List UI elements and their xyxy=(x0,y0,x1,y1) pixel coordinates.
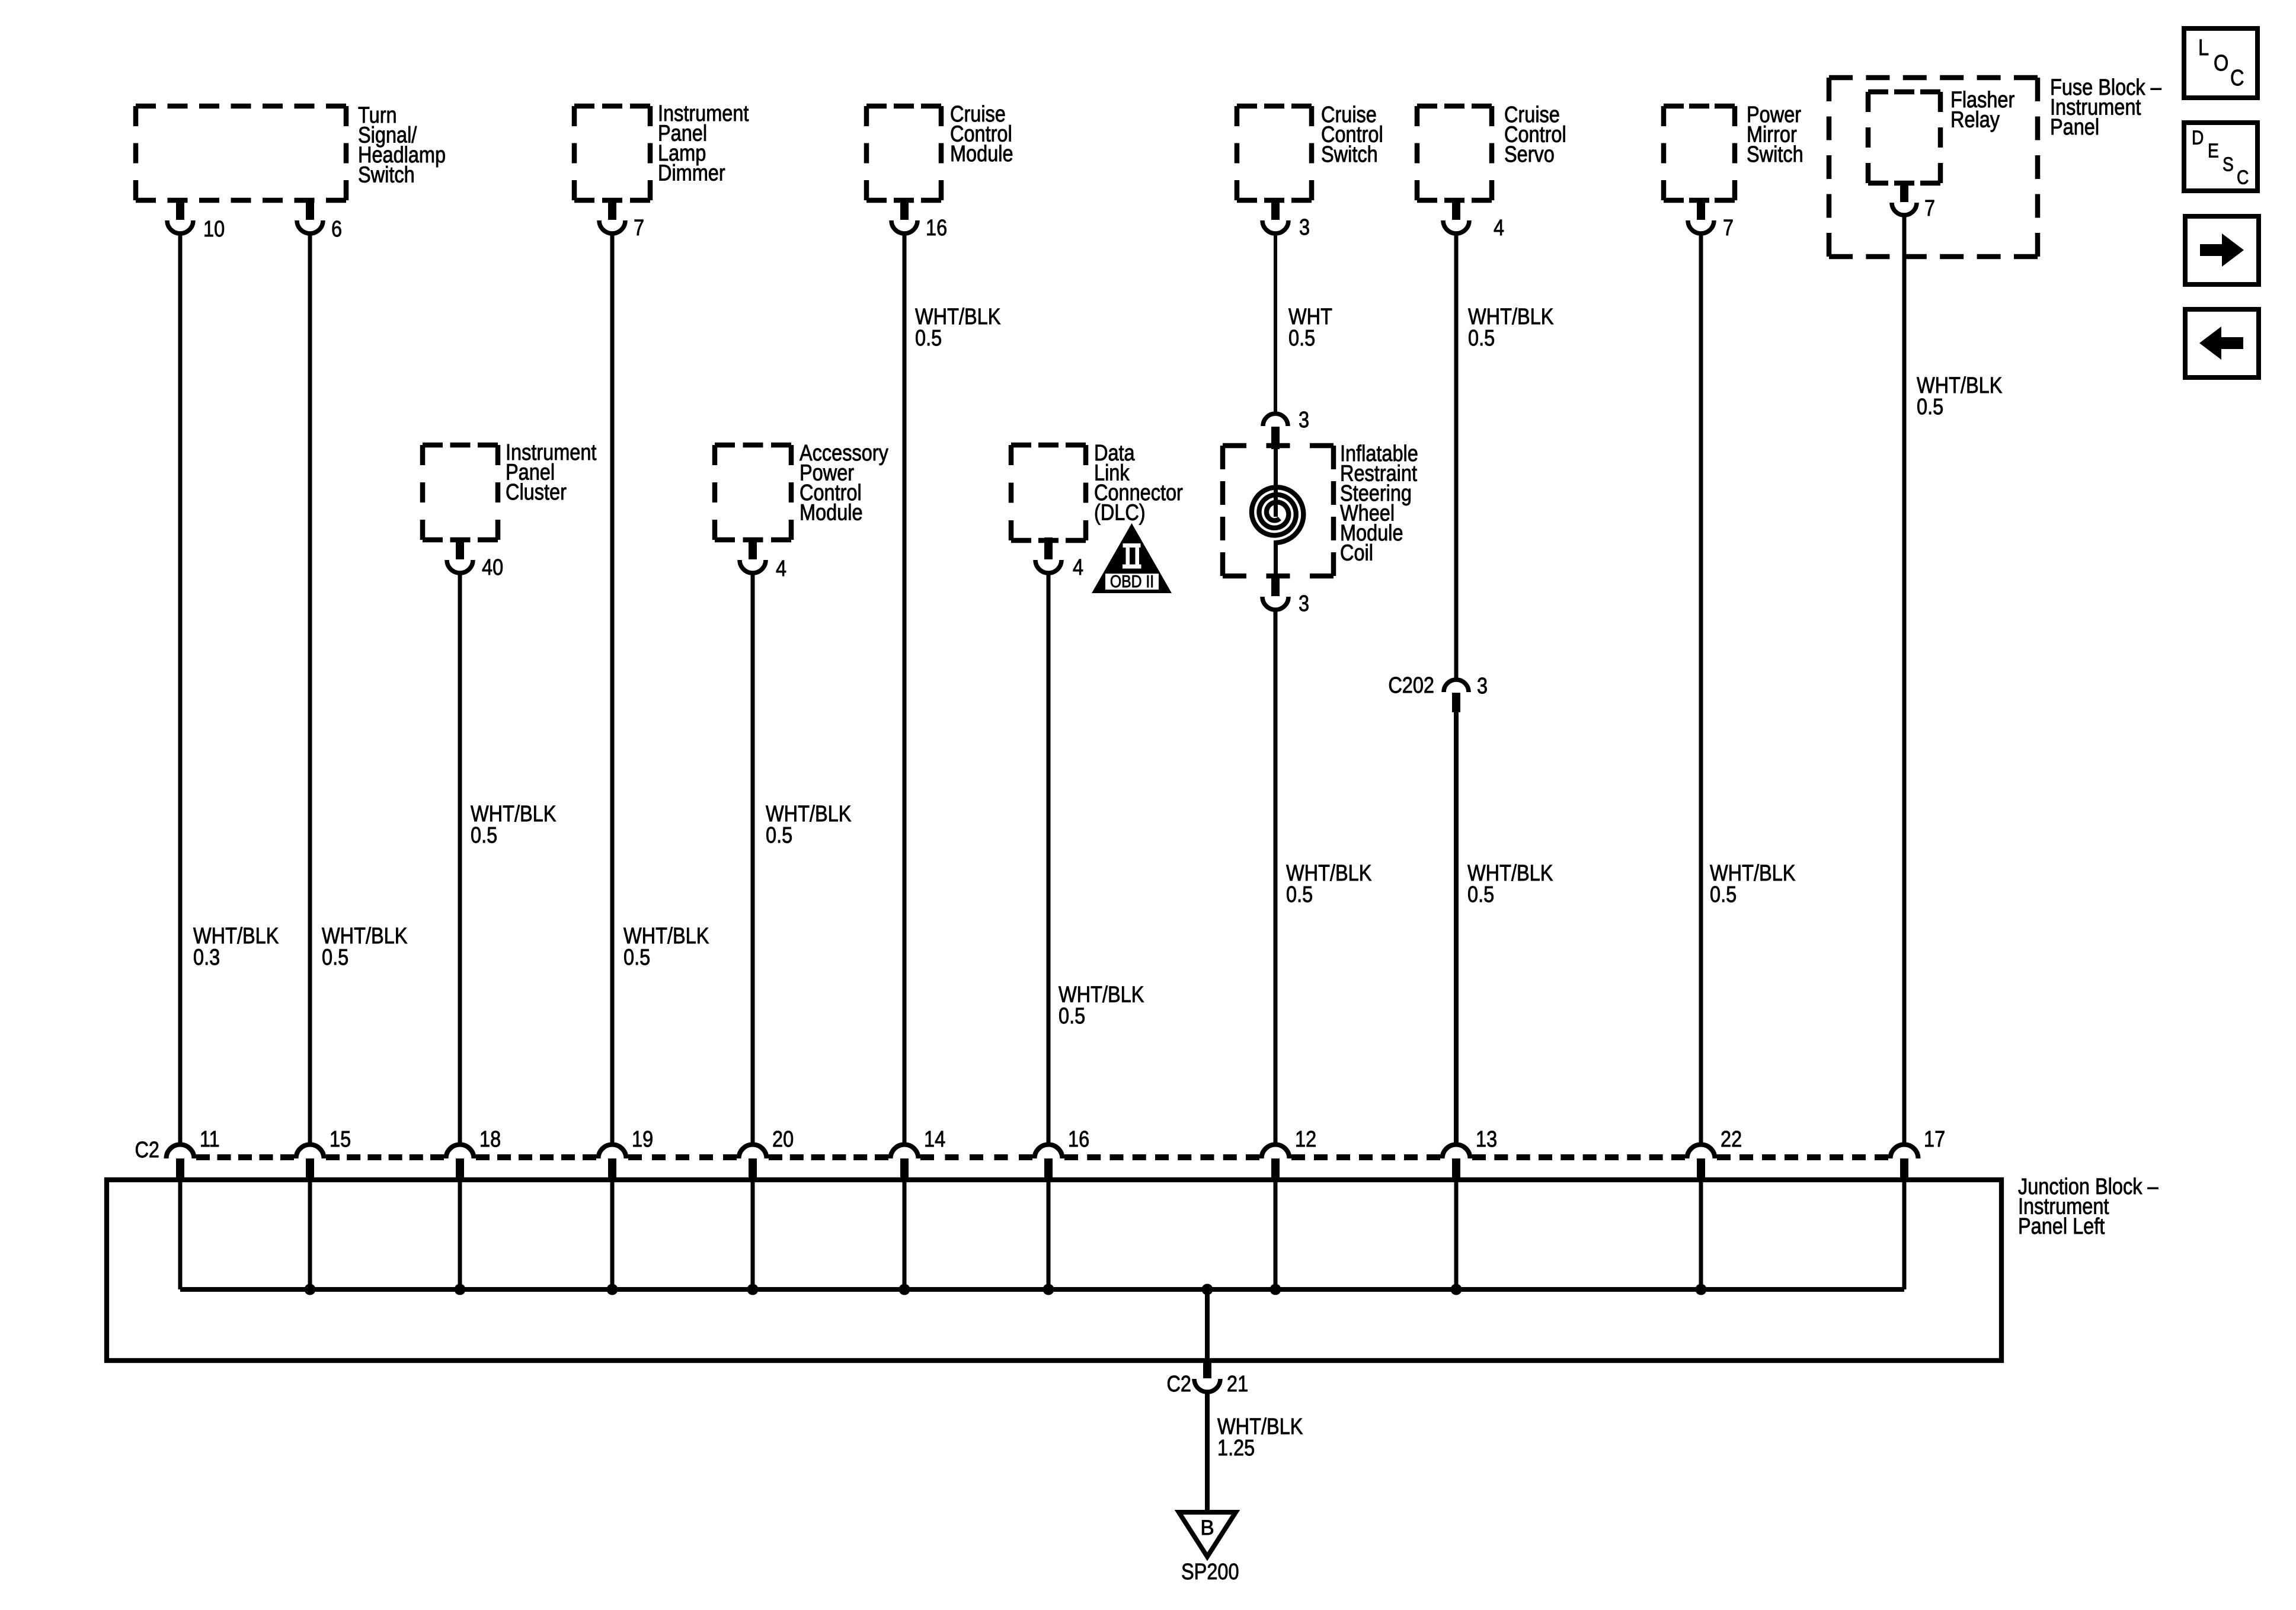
label: Turn Signal/Headlamp Switch xyxy=(358,103,446,187)
svg-text:3: 3 xyxy=(1477,674,1488,699)
svg-text:22: 22 xyxy=(1721,1127,1742,1152)
label: WHT 0.5 (wire 12 upper) xyxy=(1288,305,1332,351)
wire: DLC pin4 to C2-16 xyxy=(1047,575,1051,1144)
svg-text:(DLC): (DLC) xyxy=(1094,500,1146,525)
connector C2 pin 18 xyxy=(446,1145,474,1180)
svg-text:S: S xyxy=(2223,153,2234,176)
svg-text:0.5: 0.5 xyxy=(623,945,650,970)
label: Inflatable Restraint Steering Wheel Module Coil xyxy=(1340,441,1418,565)
svg-text:C202: C202 xyxy=(1388,673,1434,698)
bus: ground bus inside junction block xyxy=(180,1287,1904,1292)
svg-text:20: 20 xyxy=(772,1127,794,1152)
wire: cluster pin40 to C2-18 xyxy=(458,575,462,1144)
connector C2 pin 15 xyxy=(296,1145,324,1180)
pin 16 (Cruise Control Module) xyxy=(891,198,917,233)
coil spiral (clockspring) xyxy=(1252,448,1303,575)
wire: CCM pin16 to C2-14 xyxy=(903,235,907,1144)
pin 3 top (Inflatable Restraint Steering Wheel Module Coil) xyxy=(1263,414,1288,449)
connector C2 pin 12 xyxy=(1262,1145,1290,1180)
wire: pin6 to C2-15 xyxy=(308,235,312,1144)
wire: C202 to C2-13 xyxy=(1454,711,1459,1144)
connector C202 pin 3 xyxy=(1444,680,1469,712)
svg-text:3: 3 xyxy=(1299,591,1309,616)
label: connector C2 (left of row) xyxy=(135,1138,159,1163)
wire: C2 pin 14 into junction block xyxy=(903,1180,907,1289)
symbol: OBD II triangle xyxy=(1092,523,1172,593)
label: WHT/BLK 0.5 (wire 12 lower) xyxy=(1286,861,1372,907)
svg-text:0.5: 0.5 xyxy=(322,945,348,970)
component box: Cruise Control Module xyxy=(866,106,941,200)
svg-text:Switch: Switch xyxy=(358,162,415,187)
button: LOC xyxy=(2184,28,2257,98)
label: WHT/BLK 0.5 (wire 18) xyxy=(471,802,557,848)
component box: Flasher Relay xyxy=(1868,92,1940,183)
svg-text:7: 7 xyxy=(1723,216,1734,241)
svg-text:Switch: Switch xyxy=(1321,142,1378,167)
dashed line: connector C2 face xyxy=(196,1154,1888,1160)
label: WHT/BLK 0.5 (wire 17) xyxy=(1917,373,2003,420)
label: WHT/BLK 0.3 (wire 11) xyxy=(193,924,279,970)
pin 6 (Turn Signal/Headlamp Switch) xyxy=(297,198,323,233)
label: Cruise Control Servo xyxy=(1504,103,1566,167)
svg-text:0.5: 0.5 xyxy=(1467,882,1494,907)
pin 4 (Cruise Control Servo) xyxy=(1443,198,1469,233)
component box: Fuse Block - Instrument Panel xyxy=(1829,78,2038,257)
button: next page (right arrow) xyxy=(2185,216,2259,284)
svg-text:11: 11 xyxy=(200,1127,220,1152)
svg-text:Module: Module xyxy=(800,500,863,525)
label: SP200 xyxy=(1181,1560,1239,1585)
connector C2 pin 19 xyxy=(599,1145,626,1180)
svg-text:40: 40 xyxy=(482,555,503,580)
pin 7 (Power Mirror Switch) xyxy=(1688,198,1714,233)
svg-text:13: 13 xyxy=(1476,1127,1497,1152)
connector C2 pin 11 xyxy=(167,1145,194,1180)
wire: C2 pin 18 into junction block xyxy=(458,1180,462,1289)
svg-text:SP200: SP200 xyxy=(1181,1560,1239,1585)
svg-text:7: 7 xyxy=(1924,196,1935,221)
svg-text:15: 15 xyxy=(330,1127,351,1152)
svg-text:14: 14 xyxy=(924,1127,945,1152)
wire: C2 pin 20 into junction block xyxy=(751,1180,755,1289)
svg-text:0.5: 0.5 xyxy=(1288,326,1315,351)
svg-text:18: 18 xyxy=(479,1127,501,1152)
ground splice B (triangle) xyxy=(1179,1512,1236,1557)
junction block: Junction Block - Instrument Panel Left xyxy=(107,1180,2001,1361)
pin 7 (Instrument Panel Lamp Dimmer) xyxy=(599,198,625,233)
label: Cruise Control Switch xyxy=(1321,103,1383,167)
wire: coil bottom pin3 to C2-12 xyxy=(1274,612,1278,1144)
svg-text:4: 4 xyxy=(776,556,786,581)
svg-text:19: 19 xyxy=(632,1127,653,1152)
wire: switch pin3 to coil top pin3 xyxy=(1274,235,1277,412)
component box: Cruise Control Switch xyxy=(1237,106,1312,200)
svg-text:L: L xyxy=(2198,36,2209,60)
svg-text:4: 4 xyxy=(1494,216,1504,241)
component box: Power Mirror Switch xyxy=(1664,106,1735,200)
label: WHT/BLK 0.5 (wire 15) xyxy=(322,924,408,970)
junction dots on bus xyxy=(305,1284,1707,1295)
label: WHT/BLK 1.25 (splice feed) xyxy=(1217,1414,1303,1461)
svg-text:B: B xyxy=(1200,1516,1214,1539)
svg-text:12: 12 xyxy=(1295,1127,1316,1152)
svg-text:1.25: 1.25 xyxy=(1217,1436,1255,1461)
svg-text:Coil: Coil xyxy=(1340,540,1373,565)
component box: Cruise Control Servo xyxy=(1417,106,1492,200)
wire: servo pin4 to C202 xyxy=(1454,235,1459,678)
svg-text:0.5: 0.5 xyxy=(915,326,942,351)
component box: Data Link Connector (DLC) xyxy=(1011,445,1086,540)
pin 4 (Data Link Connector) xyxy=(1035,537,1061,573)
wire: C2 pin 19 into junction block xyxy=(610,1180,615,1289)
label: WHT/BLK 0.5 (wire 13 lower) xyxy=(1467,861,1553,907)
svg-text:7: 7 xyxy=(634,216,644,241)
svg-text:Relay: Relay xyxy=(1950,107,2000,132)
label: Cruise Control Module xyxy=(950,102,1013,167)
component box: Turn Signal/Headlamp Switch xyxy=(136,106,346,200)
label: Instrument Panel Cluster xyxy=(506,440,597,505)
connector C2 pin 21 xyxy=(1194,1359,1220,1392)
connector C2 pin 13 xyxy=(1443,1145,1470,1180)
svg-text:C: C xyxy=(2237,167,2249,189)
pin 10 (Turn Signal/Headlamp Switch) xyxy=(167,198,193,233)
svg-text:3: 3 xyxy=(1299,408,1309,433)
component box: Instrument Panel Cluster xyxy=(423,445,498,540)
svg-text:Servo: Servo xyxy=(1504,142,1555,167)
wire: C2 pin 17 into junction block xyxy=(1902,1180,1907,1289)
svg-text:0.5: 0.5 xyxy=(1059,1004,1085,1029)
button: DESC xyxy=(2184,123,2257,191)
wire: C2 pin 13 into junction block xyxy=(1454,1180,1459,1289)
label: WHT/BLK 0.5 (wire 16) xyxy=(1059,982,1144,1029)
svg-text:0.5: 0.5 xyxy=(1286,882,1313,907)
svg-text:16: 16 xyxy=(926,216,947,241)
svg-text:Panel: Panel xyxy=(2050,115,2099,140)
svg-text:O: O xyxy=(2214,51,2228,76)
pin 3 (Cruise Control Switch) xyxy=(1262,198,1288,233)
svg-text:OBD II: OBD II xyxy=(1110,572,1154,591)
svg-text:D: D xyxy=(2192,127,2204,149)
svg-text:21: 21 xyxy=(1227,1372,1248,1397)
label: WHT/BLK 0.5 (wire 14) xyxy=(915,305,1001,351)
svg-text:Module: Module xyxy=(950,142,1013,167)
wire: dimmer pin7 to C2-19 xyxy=(610,235,615,1144)
svg-text:6: 6 xyxy=(331,217,342,242)
svg-text:C2: C2 xyxy=(1166,1372,1191,1397)
label: Power Mirror Switch xyxy=(1747,103,1803,167)
wire: C2 pin 11 into junction block xyxy=(178,1180,183,1289)
wire: C2 pin 21 to ground splice B xyxy=(1205,1394,1210,1512)
wire: bus to C2 pin 21 xyxy=(1205,1289,1210,1359)
wire: flasher relay pin7 to C2-17 xyxy=(1902,216,1907,1144)
label: Instrument Panel Lamp Dimmer xyxy=(658,101,749,185)
label: WHT/BLK 0.5 (wire 20) xyxy=(766,802,852,848)
connector C2 pin 20 xyxy=(739,1145,767,1180)
connector C2 pin 22 xyxy=(1687,1145,1715,1180)
svg-text:17: 17 xyxy=(1924,1127,1945,1152)
svg-text:Panel Left: Panel Left xyxy=(2018,1214,2105,1239)
svg-text:C: C xyxy=(2230,66,2244,91)
svg-text:Cluster: Cluster xyxy=(506,480,567,505)
wire: pin10 to C2-11 xyxy=(178,235,183,1144)
svg-text:4: 4 xyxy=(1073,555,1083,580)
label: WHT/BLK 0.5 (wire 19) xyxy=(623,924,709,970)
wire: APCM pin4 to C2-20 xyxy=(751,575,755,1144)
label: Accessory Power Control Module xyxy=(800,441,888,525)
svg-text:Dimmer: Dimmer xyxy=(658,161,725,185)
pin 7 (Flasher Relay) xyxy=(1892,181,1917,215)
svg-text:16: 16 xyxy=(1068,1127,1089,1152)
svg-text:0.5: 0.5 xyxy=(1468,326,1495,351)
wire: C2 pin 22 into junction block xyxy=(1699,1180,1703,1289)
component box: Instrument Panel Lamp Dimmer xyxy=(574,106,650,200)
svg-text:0.5: 0.5 xyxy=(1917,395,1943,420)
label: WHT/BLK 0.5 (wire 13 upper) xyxy=(1468,305,1554,351)
label: Junction Block - Instrument Panel Left xyxy=(2018,1174,2159,1239)
pin 4 (Accessory Power Control Module) xyxy=(740,537,766,573)
connector C2 pin 16 xyxy=(1035,1145,1063,1180)
svg-text:10: 10 xyxy=(203,217,225,242)
label: Data Link Connector (DLC) xyxy=(1094,441,1183,525)
button: previous page (left arrow) xyxy=(2185,309,2259,377)
wire: C2 pin 16 into junction block xyxy=(1047,1180,1051,1289)
wire: C2 pin 15 into junction block xyxy=(308,1180,312,1289)
pin 3 bottom (Inflatable Restraint Steering Wheel Module Coil) xyxy=(1262,574,1288,610)
connector C2 pin 17 xyxy=(1891,1145,1918,1180)
label: Fuse Block - Instrument Panel xyxy=(2050,75,2161,140)
label: WHT/BLK 0.5 (wire 22) xyxy=(1710,861,1796,907)
svg-text:Switch: Switch xyxy=(1747,142,1803,167)
connector C2 pin 14 xyxy=(891,1145,919,1180)
svg-text:0.5: 0.5 xyxy=(471,823,497,848)
wire: C2 pin 12 into junction block xyxy=(1274,1180,1278,1289)
pin 40 (Instrument Panel Cluster) xyxy=(447,537,473,573)
component box: Accessory Power Control Module xyxy=(715,445,791,540)
wire: mirror pin7 to C2-22 xyxy=(1699,235,1703,1144)
svg-text:0.3: 0.3 xyxy=(193,945,220,970)
component box: Inflatable Restraint Steering Wheel Module Coil xyxy=(1223,446,1334,576)
svg-text:E: E xyxy=(2208,140,2219,162)
svg-text:0.5: 0.5 xyxy=(1710,882,1737,907)
svg-text:0.5: 0.5 xyxy=(766,823,792,848)
label: Flasher Relay xyxy=(1950,88,2015,132)
svg-text:3: 3 xyxy=(1299,215,1310,240)
svg-text:C2: C2 xyxy=(135,1138,159,1163)
